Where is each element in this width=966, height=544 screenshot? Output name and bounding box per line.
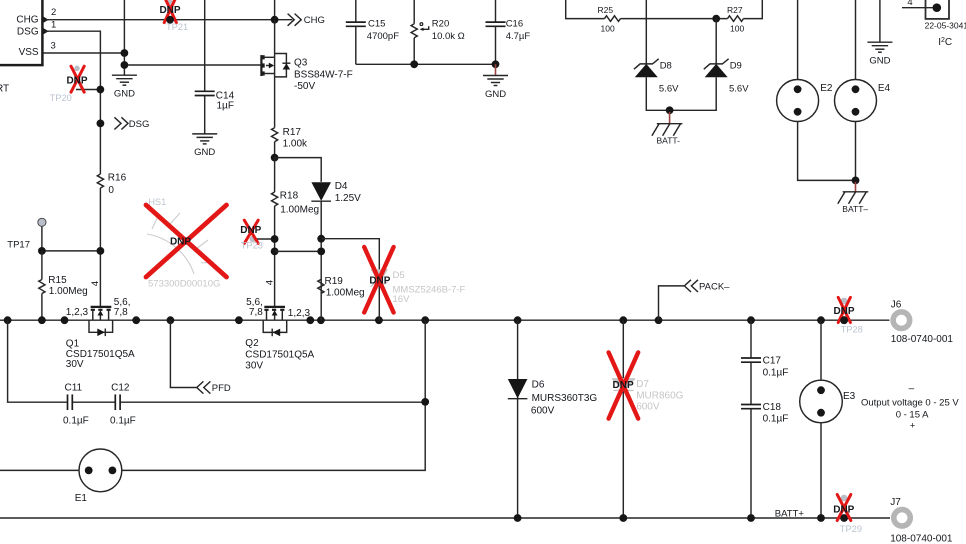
svg-text:4700pF: 4700pF <box>367 31 399 42</box>
svg-text:4: 4 <box>264 280 275 285</box>
text RT (clipped label) <box>0 84 9 95</box>
junction DSG <box>97 120 105 128</box>
junction VSS <box>121 49 129 57</box>
svg-text:PFD: PFD <box>212 383 231 394</box>
svg-text:TP23: TP23 <box>241 240 263 250</box>
junction bottom E3 <box>817 514 825 522</box>
svg-text:+: + <box>910 421 916 432</box>
wire C15/R20/C16 bus <box>356 63 496 65</box>
junction TP28 <box>840 316 848 324</box>
svg-text:BATT–: BATT– <box>842 204 868 214</box>
junction bus x64.5 <box>61 316 69 324</box>
label Q2 refdes <box>245 338 314 371</box>
connector J6 108-0740-001 <box>891 299 954 345</box>
svg-text:7,8: 7,8 <box>249 307 263 318</box>
connector E4 <box>835 0 891 122</box>
chassis ground BATT- <box>652 112 683 146</box>
junction bottom D7 <box>619 514 627 522</box>
junction bus Q1 right <box>132 316 140 324</box>
svg-text:1: 1 <box>51 20 56 31</box>
junction bottom D6 <box>514 514 522 522</box>
svg-text:DNP: DNP <box>369 275 390 286</box>
heatsink HS1 (DNP, greyed) <box>146 197 227 289</box>
svg-text:BATT-: BATT- <box>657 136 681 146</box>
label output voltage <box>861 383 959 431</box>
svg-text:D7: D7 <box>636 379 649 390</box>
junction bus D7 <box>619 316 627 324</box>
svg-text:DNP: DNP <box>613 380 634 391</box>
label Q2 pin 4 (gate) <box>264 280 275 285</box>
svg-text:DNP: DNP <box>159 5 180 16</box>
svg-text:D6: D6 <box>532 379 545 390</box>
svg-text:DNP: DNP <box>170 236 191 247</box>
resistor R15 <box>39 251 88 320</box>
svg-text:D4: D4 <box>335 181 348 192</box>
wire E3 rail <box>820 320 822 518</box>
pin 2 CHG of U1 <box>43 7 56 23</box>
transistor Q1 CSD17501Q5A <box>89 307 113 336</box>
svg-text:3: 3 <box>51 41 56 52</box>
junction C16 bottom <box>492 60 500 68</box>
connector J5 22-05-3041 I2C (partial) <box>902 0 966 48</box>
label Q2 pins 5,6, <box>246 297 263 308</box>
testpoint TP29 (DNP) <box>833 495 862 534</box>
wire PFD stub <box>170 320 196 387</box>
svg-text:DNP: DNP <box>833 504 854 515</box>
diode D4 1.25V <box>311 181 361 320</box>
junction bus Q2 left <box>235 316 243 324</box>
capacitor C12 <box>110 383 136 427</box>
svg-text:Q1: Q1 <box>66 338 80 349</box>
transistor Q3 BSS84W-7-F <box>261 20 290 128</box>
svg-text:DSG: DSG <box>129 119 150 130</box>
connector E1 <box>75 449 122 504</box>
junction bus D6 <box>514 316 522 324</box>
resistor R17 <box>272 127 309 157</box>
junction R20 bottom <box>410 60 418 68</box>
svg-text:30V: 30V <box>66 359 84 370</box>
svg-text:D9: D9 <box>730 61 742 72</box>
testpoint TP20 (DNP) <box>50 66 101 104</box>
diode D7 MUR860G (DNP, greyed) <box>609 320 684 518</box>
svg-text:Q2: Q2 <box>245 338 259 349</box>
svg-text:HS1: HS1 <box>148 197 166 207</box>
junction gate cross left <box>271 248 279 256</box>
pin 1 DSG of U1 <box>43 20 56 35</box>
svg-text:GND: GND <box>194 147 215 158</box>
chassis ground BATT- (E2/E4) <box>838 182 869 214</box>
svg-text:C11: C11 <box>65 383 83 394</box>
svg-text:1,2,3: 1,2,3 <box>288 308 311 319</box>
svg-text:C16: C16 <box>506 19 523 30</box>
svg-text:D5: D5 <box>393 270 405 281</box>
junction bus TP28 <box>840 316 848 324</box>
svg-text:0.1µF: 0.1µF <box>763 414 789 425</box>
wire VSS rail <box>43 0 261 75</box>
junction TP21 on CHG wire <box>166 16 174 24</box>
label BATT+ <box>775 509 805 520</box>
svg-text:PACK–: PACK– <box>699 281 730 292</box>
wire C17/C18 rail <box>750 320 752 518</box>
svg-text:MUR860G: MUR860G <box>636 391 683 402</box>
junction bus PACK arrow <box>655 316 663 324</box>
svg-text:D8: D8 <box>660 61 672 72</box>
junction bus x7.6 <box>4 316 12 324</box>
wire bottom bus BATT+ net <box>0 517 890 519</box>
svg-text:GND: GND <box>114 89 135 100</box>
ground GND (I2C) <box>867 0 892 67</box>
junction TP17 wire left <box>38 247 46 255</box>
wire gate cross link <box>275 250 322 252</box>
wire E4 down <box>855 122 857 181</box>
connector E2 <box>777 0 833 122</box>
svg-text:R16: R16 <box>108 173 127 184</box>
svg-text:R25: R25 <box>598 5 614 15</box>
wire E2 to BATT- chassis <box>798 122 856 181</box>
wire Q3 drain stub <box>274 0 276 20</box>
label Q2 pins 1,2,3 <box>288 308 311 319</box>
svg-text:0.1µF: 0.1µF <box>763 367 789 378</box>
pin 3 VSS of U1 <box>51 41 56 52</box>
capacitor C15 <box>346 0 399 64</box>
svg-text:1.00Meg: 1.00Meg <box>49 286 88 297</box>
svg-text:RT: RT <box>0 84 9 95</box>
svg-text:CHG: CHG <box>16 15 38 26</box>
capacitor C16 <box>486 0 531 64</box>
svg-text:Output voltage 0 - 25 V: Output voltage 0 - 25 V <box>861 398 959 409</box>
svg-text:C17: C17 <box>763 355 782 366</box>
svg-text:10.0k Ω: 10.0k Ω <box>432 31 465 42</box>
wire main bus PACK- net <box>0 319 890 321</box>
svg-text:16V: 16V <box>393 294 411 305</box>
svg-text:R27: R27 <box>727 5 743 15</box>
svg-text:R17: R17 <box>283 127 302 138</box>
junction TP23 <box>271 235 279 243</box>
svg-text:573300D00010G: 573300D00010G <box>148 278 220 289</box>
wire R17 to D4 branch <box>275 158 322 182</box>
svg-text:2: 2 <box>51 7 56 18</box>
wire D5 branch <box>321 239 379 321</box>
svg-text:E3: E3 <box>843 391 856 402</box>
capacitor C14 <box>195 91 235 112</box>
svg-text:R18: R18 <box>280 190 299 201</box>
junction TP17 wire right <box>97 247 105 255</box>
svg-text:BATT+: BATT+ <box>775 509 805 520</box>
svg-text:J6: J6 <box>891 299 902 310</box>
junction C11 line to rail <box>421 398 429 406</box>
capacitor C11 <box>63 383 89 427</box>
svg-text:0 - 15 A: 0 - 15 A <box>896 409 929 420</box>
junction bottom TP29 <box>840 514 848 522</box>
resistor R18 <box>272 158 320 307</box>
zener D9 5.6V <box>670 19 750 111</box>
ground GND (C14) <box>192 134 217 158</box>
connector J7 108-0740-001 <box>890 497 953 544</box>
zener D5 MMSZ5246B-7-F (DNP, greyed) <box>364 247 465 313</box>
off-page connector DSG <box>114 117 149 130</box>
svg-text:E4: E4 <box>878 83 891 94</box>
svg-text:22-05-3041: 22-05-3041 <box>925 20 966 30</box>
svg-text:Q3: Q3 <box>294 57 308 68</box>
junction bus D5 <box>375 316 383 324</box>
testpoint TP28 (DNP) <box>833 297 862 334</box>
connector E3 <box>800 380 856 423</box>
svg-text:DNP: DNP <box>66 76 87 87</box>
svg-text:E2: E2 <box>820 83 833 94</box>
resistor R25 <box>598 5 621 34</box>
svg-text:–: – <box>909 383 915 394</box>
diode D6 MURS360T3G <box>508 320 598 518</box>
junction cross right <box>317 248 325 256</box>
svg-text:R19: R19 <box>325 276 344 287</box>
off-page connector CHG <box>288 14 325 27</box>
capacitor C18 <box>741 402 788 425</box>
svg-text:J7: J7 <box>890 497 901 508</box>
svg-text:0.1µF: 0.1µF <box>63 415 89 426</box>
label Q1 pins 7,8 <box>114 307 128 318</box>
svg-text:TP20: TP20 <box>50 93 72 103</box>
svg-text:R15: R15 <box>48 275 67 286</box>
resistor R27 <box>727 5 744 34</box>
junction gate line <box>121 61 129 69</box>
svg-text:BSS84W-7-F: BSS84W-7-F <box>294 70 353 81</box>
svg-text:TP17: TP17 <box>7 240 30 251</box>
junction D4/D5 link <box>317 235 325 243</box>
resistor R16 <box>97 173 126 197</box>
wire E1 rail <box>0 320 425 470</box>
label Q1 pins 5,6, <box>114 297 131 308</box>
junction Q3 drain on CHG <box>271 16 279 24</box>
svg-text:DNP: DNP <box>833 306 854 317</box>
wire R25/R27 line <box>566 0 763 19</box>
svg-text:VSS: VSS <box>19 47 39 58</box>
wire PACK- stub <box>659 286 685 320</box>
junction E2/E4 <box>852 177 860 185</box>
svg-text:MURS360T3G: MURS360T3G <box>532 393 598 404</box>
svg-text:100: 100 <box>730 24 744 34</box>
junction bus PFD <box>167 316 175 324</box>
svg-text:1,2,3: 1,2,3 <box>66 307 89 318</box>
svg-text:TP28: TP28 <box>841 324 863 334</box>
svg-text:C18: C18 <box>763 402 782 413</box>
svg-text:C12: C12 <box>111 383 130 394</box>
svg-text:TP29: TP29 <box>840 524 862 534</box>
label Q1 pin 4 (gate) <box>90 281 101 286</box>
ground GND (near U1) <box>112 75 137 99</box>
testpoint TP17 <box>7 218 46 251</box>
svg-text:CHG: CHG <box>304 15 325 26</box>
junction bus Q2 right <box>306 316 314 324</box>
svg-text:E1: E1 <box>75 493 88 504</box>
ground GND (C16) <box>483 64 508 100</box>
junction bus E3 <box>817 316 825 324</box>
svg-text:108-0740-001: 108-0740-001 <box>891 334 954 345</box>
junction bus R19 <box>317 316 325 324</box>
junction D9 tap <box>712 15 720 23</box>
junction R17/R18/D4 <box>271 154 279 162</box>
wire DSG rail from U1 pin 1 <box>43 31 101 307</box>
testpoint TP21 (DNP) <box>159 0 188 32</box>
resistor R19 <box>318 276 365 299</box>
svg-text:108-0740-001: 108-0740-001 <box>890 533 953 544</box>
svg-text:30V: 30V <box>245 361 263 372</box>
wire C11/C12 line <box>8 320 426 402</box>
IC U1 battery monitor (edge, partial) <box>0 0 42 65</box>
svg-text:1.00Meg: 1.00Meg <box>326 288 365 299</box>
label Q3 refdes <box>294 57 353 92</box>
off-page connector PACK- <box>684 280 730 293</box>
transistor Q2 CSD17501Q5A <box>263 307 287 336</box>
wire CHG net from U1 pin 2 to off-page <box>43 19 292 21</box>
svg-text:600V: 600V <box>636 401 660 412</box>
svg-text:C15: C15 <box>368 19 385 30</box>
svg-text:DSG: DSG <box>17 27 39 38</box>
wire TP17 to gate rail <box>42 250 101 252</box>
svg-text:4: 4 <box>90 281 101 286</box>
off-page connector PFD <box>197 381 231 394</box>
svg-text:1.25V: 1.25V <box>335 193 361 204</box>
svg-text:0.1µF: 0.1µF <box>110 415 136 426</box>
svg-text:100: 100 <box>601 24 615 34</box>
svg-text:4.7µF: 4.7µF <box>506 31 531 42</box>
svg-text:1.00Meg: 1.00Meg <box>280 204 319 215</box>
testpoint TP23 (DNP) <box>240 220 274 250</box>
junction bus C17 <box>747 316 755 324</box>
svg-text:GND: GND <box>485 89 506 100</box>
label Q1 pins 1,2,3 <box>66 307 89 318</box>
junction BATT- chassis <box>666 106 674 114</box>
svg-text:GND: GND <box>869 56 890 67</box>
junction bottom C18 <box>747 514 755 522</box>
svg-text:600V: 600V <box>531 405 555 416</box>
svg-text:R20: R20 <box>432 19 449 30</box>
svg-text:0: 0 <box>108 185 114 196</box>
svg-text:I2C: I2C <box>938 37 952 48</box>
svg-text:DNP: DNP <box>240 225 261 236</box>
svg-text:5.6V: 5.6V <box>729 84 749 95</box>
svg-text:-50V: -50V <box>294 81 315 92</box>
svg-text:1.00k: 1.00k <box>283 139 308 150</box>
svg-text:4: 4 <box>907 0 912 8</box>
junction bus C11 rail <box>421 316 429 324</box>
svg-text:CSD17501Q5A: CSD17501Q5A <box>245 350 314 361</box>
label Q2 pins 7,8 <box>249 307 263 318</box>
resistor R20 trimmer <box>411 0 465 64</box>
capacitor C17 <box>741 355 788 378</box>
wire C14 rail <box>204 0 206 134</box>
svg-text:1µF: 1µF <box>217 101 234 112</box>
svg-text:7,8: 7,8 <box>114 307 128 318</box>
zener D8 5.6V <box>634 0 679 110</box>
svg-text:5.6V: 5.6V <box>659 84 679 95</box>
label Q1 refdes <box>66 338 135 370</box>
junction TP20 <box>97 86 105 94</box>
junction bus R15 <box>38 316 46 324</box>
